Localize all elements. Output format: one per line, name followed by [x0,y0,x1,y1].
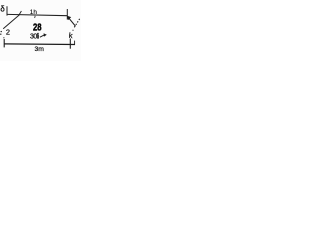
slash tick above top line [19,11,22,16]
lone dash dot below dashed line [72,30,73,31]
right arrow shaft [69,18,76,26]
dot above bottom-left tick [3,37,4,38]
svg-text:28: 28 [33,22,41,33]
bottom dimension line [4,43,75,46]
paper background [0,0,81,61]
small tick below top line at x=35 [34,16,37,18]
svg-text:2: 2 [6,28,10,37]
bottom-left end tick [3,39,5,47]
left diagonal line [3,15,19,29]
bottom-right tall tick [69,39,71,49]
svg-text:3m: 3m [35,46,45,53]
svg-text:30li: 30li [30,34,40,41]
top dimension line [7,14,67,15]
dashed line top-right [74,18,80,28]
small right arrow after text [40,35,44,37]
top-left end tick [6,6,8,15]
right arrow head pointing up-left [67,16,71,21]
bottom-right end hook tick [74,41,76,45]
arrow dots at lower end of left diagonal [1,31,2,32]
top-right end tick [66,9,68,20]
svg-text:δ: δ [0,4,5,13]
svg-text:1h: 1h [30,9,38,16]
